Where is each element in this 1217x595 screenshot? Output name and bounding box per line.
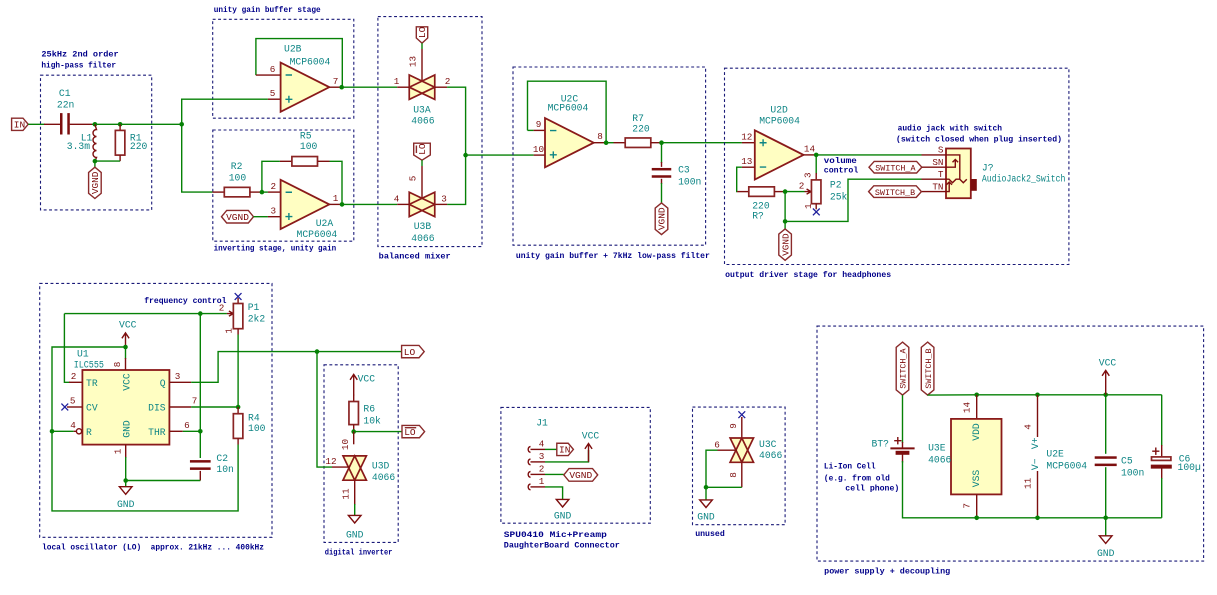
pin 1 U1 — [125, 445, 127, 458]
wire wiper node down — [784, 192, 786, 222]
svg-text:LO: LO — [404, 427, 416, 438]
pin 12 U3D — [332, 466, 350, 468]
GND 555 — [117, 487, 135, 510]
pin 3 U3B — [435, 203, 447, 205]
wire node to jack T — [785, 179, 921, 221]
wire node to pin2 — [262, 191, 268, 193]
wire VCC to pin 8 — [125, 347, 127, 359]
inductor L1 — [93, 124, 97, 161]
pin 2 R7 — [651, 142, 662, 144]
wire mixer out down — [447, 155, 466, 204]
pin 2 R-fb — [774, 191, 785, 193]
svg-text:R?: R? — [752, 210, 764, 221]
svg-text:4066: 4066 — [928, 454, 951, 465]
VCC arrow supply — [1099, 358, 1117, 395]
junction THR/C2 — [198, 429, 203, 434]
junction R1 top — [118, 122, 123, 127]
svg-text:(switch closed when plug inser: (switch closed when plug inserted) — [896, 134, 1062, 144]
potentiometer P1 wiper arrow — [227, 311, 233, 316]
hier label SWITCH_B jack — [869, 186, 922, 198]
junction mixer output — [463, 153, 468, 158]
GND U3D — [346, 515, 364, 540]
jack sleeve block — [971, 179, 977, 191]
hier label SWITCH_B power — [921, 342, 934, 395]
pin 5 U2B — [268, 98, 281, 100]
svg-text:U3D: U3D — [372, 460, 390, 471]
svg-text:SPU0410 Mic+Preamp: SPU0410 Mic+Preamp — [504, 530, 607, 540]
junction GND/C5 bottom — [1103, 516, 1108, 521]
pin 10 U2C — [534, 154, 545, 156]
no-connect X at U3C pin 9 — [738, 411, 745, 418]
resistor R4 body — [233, 414, 243, 439]
svg-text:R5: R5 — [300, 130, 312, 141]
GND U3C — [697, 500, 715, 523]
resistor R1 — [115, 130, 125, 155]
svg-text:5: 5 — [70, 395, 76, 406]
svg-text:U1: U1 — [77, 348, 89, 359]
svg-text:R2: R2 — [231, 161, 243, 172]
pin 2 R2 — [250, 191, 262, 193]
pin 14 U2D — [804, 154, 817, 156]
resistor R7 — [625, 138, 651, 148]
wire node to R1 — [95, 123, 120, 125]
svg-text:S: S — [938, 145, 944, 156]
svg-text:3.3m: 3.3m — [67, 141, 90, 152]
connector J1 pin 2 arc — [528, 471, 530, 477]
junction L1/VGND — [93, 159, 98, 164]
junction VCC node — [123, 345, 128, 350]
wire battery to bottom rail — [903, 461, 977, 518]
svg-text:C1: C1 — [59, 88, 71, 99]
pin 2 C2 — [199, 471, 201, 481]
hier label VGND output — [779, 229, 792, 260]
svg-text:2: 2 — [71, 371, 77, 382]
svg-text:U2A: U2A — [316, 218, 334, 229]
svg-text:cell phone): cell phone) — [845, 484, 899, 494]
svg-text:2: 2 — [445, 76, 451, 87]
no-connect X at CV — [61, 404, 68, 411]
junction U2A output — [340, 202, 345, 207]
pin - C6 — [1161, 469, 1163, 480]
pin 13 U3A — [421, 49, 423, 81]
wire to P2 wiper — [785, 191, 804, 193]
svg-text:4066: 4066 — [759, 450, 782, 461]
wire LO branch to pin 12 — [317, 352, 332, 468]
pin 11 U2E — [1037, 471, 1039, 518]
wire U2D out down to P2 — [815, 155, 817, 174]
hier label VGND C3 — [655, 203, 668, 235]
pin 1 R5 — [280, 160, 292, 162]
svg-text:SWITCH_A: SWITCH_A — [875, 163, 916, 173]
svg-text:unused: unused — [695, 529, 725, 539]
wire C6 bottom — [1161, 478, 1163, 518]
svg-text:4: 4 — [394, 194, 400, 205]
svg-text:audio jack with switch: audio jack with switch — [898, 124, 1002, 134]
audio jack J? body — [946, 149, 971, 199]
op-amp U2D body — [755, 130, 804, 179]
pin 2 U3A — [435, 86, 447, 88]
wire IN to C1 — [28, 123, 45, 125]
hier label LO mixer — [416, 26, 428, 43]
svg-text:SWITCH_B: SWITCH_B — [875, 188, 915, 198]
svg-text:inverting stage, unity gain: inverting stage, unity gain — [214, 244, 337, 254]
svg-text:VCC: VCC — [582, 430, 600, 441]
svg-text:Li-Ion Cell: Li-Ion Cell — [824, 461, 876, 471]
svg-text:VCC: VCC — [119, 320, 137, 331]
svg-text:8: 8 — [728, 472, 739, 478]
svg-text:R6: R6 — [363, 404, 375, 415]
svg-text:3: 3 — [539, 451, 545, 462]
svg-text:T: T — [938, 169, 944, 180]
pin 6 U1 — [169, 430, 182, 432]
svg-text:4066: 4066 — [411, 233, 434, 244]
svg-text:25kHz 2nd order: 25kHz 2nd order — [41, 50, 118, 60]
pin 7 U2B — [329, 86, 341, 88]
svg-text:4: 4 — [539, 438, 545, 449]
svg-text:DaughterBoard Connector: DaughterBoard Connector — [504, 540, 620, 550]
no-connect X at P2 pin 1 — [813, 209, 820, 216]
pin 1 C3 — [661, 162, 663, 167]
graphic box: buffer + low-pass — [513, 67, 706, 245]
svg-text:GND: GND — [554, 510, 572, 521]
svg-text:10: 10 — [340, 439, 351, 450]
wire U2C out to R7 — [606, 142, 613, 144]
jack internal SN arrow — [946, 160, 958, 168]
pin 5 U1 — [67, 406, 82, 408]
wire C1 to node — [92, 123, 95, 125]
svg-text:3: 3 — [441, 194, 447, 205]
svg-text:SWITCH_B: SWITCH_B — [924, 348, 934, 388]
svg-text:VGND: VGND — [780, 233, 791, 256]
junction U2E V- rail — [1035, 516, 1040, 521]
svg-text:1: 1 — [803, 203, 814, 209]
svg-text:U2B: U2B — [284, 44, 302, 55]
pin 8 U1 — [125, 358, 127, 370]
wire THR node to C2 — [199, 431, 201, 458]
svg-text:MCP6004: MCP6004 — [759, 115, 800, 126]
svg-text:GND: GND — [1097, 548, 1115, 559]
svg-text:unity gain buffer stage: unity gain buffer stage — [214, 5, 321, 15]
svg-text:U3E: U3E — [928, 442, 946, 453]
GND J1 — [554, 499, 572, 521]
potentiometer P2 body — [811, 180, 821, 204]
hier label VGND U2A — [222, 210, 254, 223]
svg-text:LO: LO — [404, 347, 416, 358]
pin 1 U3A — [397, 86, 409, 88]
wire GND stem unused — [705, 487, 707, 500]
svg-text:2k2: 2k2 — [248, 314, 266, 325]
svg-text:100: 100 — [248, 423, 266, 434]
junction R pin rail — [50, 429, 55, 434]
wire SWITCH_B to top rail — [928, 394, 977, 396]
op-amp U2B body — [281, 63, 330, 112]
svg-text:6: 6 — [270, 64, 276, 75]
svg-text:VCC: VCC — [358, 373, 376, 384]
svg-text:U2D: U2D — [770, 105, 788, 116]
svg-text:VCC: VCC — [121, 373, 132, 391]
svg-text:control: control — [824, 165, 859, 175]
pin 1 R-fb — [737, 191, 749, 193]
wire bottom rail — [977, 517, 1162, 519]
pin 2 C3 — [661, 179, 663, 184]
svg-text:volume: volume — [824, 156, 857, 166]
wire U2D feedback — [737, 167, 742, 191]
svg-text:V−: V− — [1030, 458, 1041, 470]
wire Q to LO — [191, 352, 317, 383]
wire pin8 to GND node — [706, 486, 742, 488]
svg-text:100: 100 — [300, 141, 318, 152]
svg-text:power supply + decoupling: power supply + decoupling — [824, 567, 950, 577]
hier label VGND J1 — [564, 469, 598, 482]
switch U3A body — [409, 75, 435, 99]
svg-text:MCP6004: MCP6004 — [1046, 460, 1087, 471]
svg-text:P1: P1 — [248, 302, 260, 313]
svg-text:digital inverter: digital inverter — [325, 548, 393, 558]
wire U3A out — [447, 87, 466, 155]
junction U2C output — [604, 140, 609, 145]
wire pin6 down — [706, 450, 718, 487]
wire GND stem 555 — [125, 481, 127, 487]
hier label VGND filter — [89, 167, 102, 198]
hier label SWITCH_A jack — [869, 161, 922, 173]
graphic box: unity gain buffer stage — [213, 19, 354, 118]
junction unused GND — [704, 485, 709, 490]
wire LObar to pin5 — [421, 160, 423, 166]
graphic box: output driver stage — [725, 68, 1069, 264]
pin 8 U3C — [741, 462, 743, 487]
svg-text:14: 14 — [804, 144, 816, 155]
graphic box: balanced mixer — [378, 17, 482, 247]
wire fb to pin9 — [528, 129, 534, 131]
wire TR to P1 wiper — [64, 313, 200, 315]
svg-text:P2: P2 — [830, 179, 842, 190]
pin 4 U3B — [397, 203, 409, 205]
svg-text:100n: 100n — [678, 177, 701, 188]
svg-text:VSS: VSS — [971, 470, 982, 488]
svg-text:12: 12 — [325, 456, 336, 467]
hier label LO-bar mixer — [414, 143, 431, 160]
pin 14 U3E — [976, 395, 978, 419]
hier label IN — [12, 118, 29, 130]
jack internal sleeve contact — [946, 155, 960, 179]
hier label LO-bar out — [402, 425, 425, 437]
pin 6 U3C — [718, 449, 738, 451]
svg-text:TN: TN — [932, 181, 943, 192]
svg-text:R: R — [86, 427, 92, 438]
svg-text:100µ: 100µ — [1178, 462, 1201, 473]
svg-text:VGND: VGND — [226, 212, 249, 223]
graphic box: local oscillator — [40, 283, 272, 537]
wire junction to C3 — [661, 143, 663, 163]
svg-text:220: 220 — [130, 141, 148, 152]
wire VGND stem — [94, 161, 96, 167]
pin 6 U2B — [256, 74, 281, 76]
svg-text:C5: C5 — [1121, 455, 1133, 466]
junction C1/L1 node — [93, 122, 98, 127]
jack internal TN arrow — [946, 182, 952, 192]
junction R7/C3 — [659, 140, 664, 145]
wire C5 bottom — [1105, 467, 1107, 518]
svg-text:13: 13 — [407, 56, 418, 67]
wire to LO-bar label — [354, 431, 402, 433]
svg-text:3: 3 — [803, 172, 814, 178]
pin 1 J1 — [531, 486, 546, 488]
pin 9 U3C — [741, 417, 743, 444]
svg-text:C2: C2 — [216, 453, 228, 464]
IC U1 ILC555 body — [82, 370, 169, 445]
op-amp U2C body — [545, 118, 594, 167]
pin 7 U1 — [169, 406, 191, 408]
svg-text:balanced mixer: balanced mixer — [379, 252, 451, 262]
potentiometer P1 body — [233, 304, 243, 329]
pin 11 U3D — [354, 480, 356, 505]
wire feedback up — [262, 161, 280, 192]
pin 1 P2 — [815, 204, 817, 210]
svg-text:DIS: DIS — [148, 403, 166, 414]
wire GND stem supply — [1105, 518, 1107, 536]
wire VGND to pin3 — [254, 216, 268, 218]
potentiometer P2 wiper arrow — [805, 189, 811, 194]
battery plus sign — [894, 437, 901, 444]
pin 10 U3D — [353, 432, 355, 445]
pin 1 U2A — [329, 203, 342, 205]
wire C6 top — [1161, 395, 1163, 446]
junction input branch node — [179, 122, 184, 127]
svg-text:VGND: VGND — [90, 171, 101, 194]
graphic box: power supply — [817, 326, 1204, 561]
svg-text:local oscillator (LO) approx.: local oscillator (LO) approx. 21kHz ... … — [42, 543, 264, 553]
svg-text:7: 7 — [192, 395, 198, 406]
wire LO to pin13 — [421, 43, 423, 49]
svg-text:1: 1 — [224, 328, 235, 334]
capacitor C5 body — [1095, 456, 1117, 466]
svg-text:4: 4 — [70, 420, 76, 431]
svg-text:7: 7 — [961, 503, 972, 509]
wire TR net — [64, 314, 70, 383]
svg-text:ILC555: ILC555 — [74, 360, 104, 371]
wire C5 top — [1105, 395, 1107, 454]
pin 1 R6 — [353, 395, 355, 402]
svg-text:8: 8 — [112, 362, 123, 368]
svg-text:CV: CV — [86, 403, 98, 414]
svg-text:U2E: U2E — [1046, 448, 1064, 459]
svg-text:BT?: BT? — [872, 438, 890, 449]
op-amp U2A body — [281, 180, 330, 229]
pin 3 P1 — [237, 298, 239, 304]
hier label IN J1 — [557, 443, 574, 455]
wire U2A out to U3B — [342, 203, 397, 205]
svg-text:2: 2 — [539, 463, 545, 474]
capacitor C2 body — [190, 460, 211, 470]
svg-text:C3: C3 — [678, 164, 690, 175]
junction R?/P2 wiper — [783, 189, 788, 194]
pin 12 U2D — [742, 142, 755, 144]
VCC arrow 555 — [119, 320, 137, 348]
jack internal tip contact — [946, 179, 967, 183]
wire R4 to bottom rail — [52, 431, 238, 511]
svg-text:22n: 22n — [57, 100, 74, 111]
wire U2D out to jack S — [816, 154, 921, 156]
pin 3 U2A — [268, 216, 281, 218]
junction U3E VSS — [974, 516, 979, 521]
svg-text:220: 220 — [632, 124, 650, 135]
wire U2B out to U3A — [342, 86, 398, 88]
pin 1 P1 — [237, 329, 239, 335]
VCC arrow R6 — [350, 373, 375, 395]
svg-text:GND: GND — [121, 420, 132, 438]
wire pin1 to GND — [125, 457, 127, 481]
pin 8 U2C — [594, 142, 606, 144]
svg-text:GND: GND — [697, 512, 715, 523]
pin 2 C1 — [70, 123, 92, 125]
svg-text:U3B: U3B — [414, 221, 432, 232]
pin 2 R1 — [119, 155, 121, 161]
junction GND 555 — [123, 478, 128, 483]
svg-text:TR: TR — [86, 378, 98, 389]
pin 2 U1 — [69, 381, 82, 383]
overbar on LO label — [405, 427, 416, 429]
junction U3E VDD — [974, 393, 979, 398]
svg-text:100n: 100n — [1121, 467, 1144, 478]
pin 5 U3B — [421, 166, 423, 198]
resistor R5 — [292, 157, 318, 167]
junction R6/LO-bar — [351, 429, 356, 434]
wire pin3 to VCC — [545, 450, 589, 462]
svg-text:12: 12 — [741, 131, 752, 142]
wire branch up to U2B + — [182, 99, 268, 124]
svg-text:3: 3 — [175, 371, 181, 382]
svg-text:SN: SN — [932, 157, 943, 168]
pin 3 U1 — [169, 381, 191, 383]
junction U2B output — [339, 85, 344, 90]
pin 4 J1 — [531, 448, 546, 450]
junction U2E V+ — [1035, 393, 1040, 398]
wire feedback to output — [330, 161, 343, 204]
wire pin1 to GND — [545, 487, 563, 500]
svg-text:2: 2 — [799, 180, 805, 191]
wire U2B feedback — [256, 39, 342, 88]
pin 3 P2 — [815, 173, 817, 180]
svg-text:AudioJack2_Switch: AudioJack2_Switch — [982, 173, 1066, 184]
wire top rail — [977, 394, 1162, 396]
connector J1 pin 4 arc — [528, 446, 530, 452]
svg-text:IN: IN — [559, 445, 570, 456]
pin 2 R4 — [237, 438, 239, 444]
svg-text:7: 7 — [333, 76, 339, 87]
svg-text:U3A: U3A — [413, 105, 431, 116]
wire pin2 to VGND — [545, 473, 564, 475]
pin 1 R4 — [237, 407, 239, 414]
resistor R2 — [224, 187, 250, 197]
svg-text:GND: GND — [346, 530, 364, 541]
svg-text:MCP6004: MCP6004 — [548, 103, 589, 114]
svg-text:GND: GND — [117, 499, 135, 510]
svg-text:6: 6 — [714, 439, 720, 450]
connector J1 pin 3 arc — [528, 459, 530, 465]
svg-text:1: 1 — [112, 448, 123, 454]
graphic box: digital inverter — [324, 365, 398, 543]
svg-text:10: 10 — [533, 144, 544, 155]
switch U3C body — [730, 438, 753, 462]
capacitor C6 plus sign — [1152, 448, 1159, 455]
svg-text:2: 2 — [219, 302, 225, 313]
svg-text:THR: THR — [148, 427, 166, 438]
pin T jack — [922, 178, 947, 180]
svg-text:8: 8 — [597, 131, 603, 142]
svg-text:25k: 25k — [830, 191, 848, 202]
svg-text:MCP6004: MCP6004 — [297, 229, 338, 240]
pin TN jack — [922, 191, 946, 193]
